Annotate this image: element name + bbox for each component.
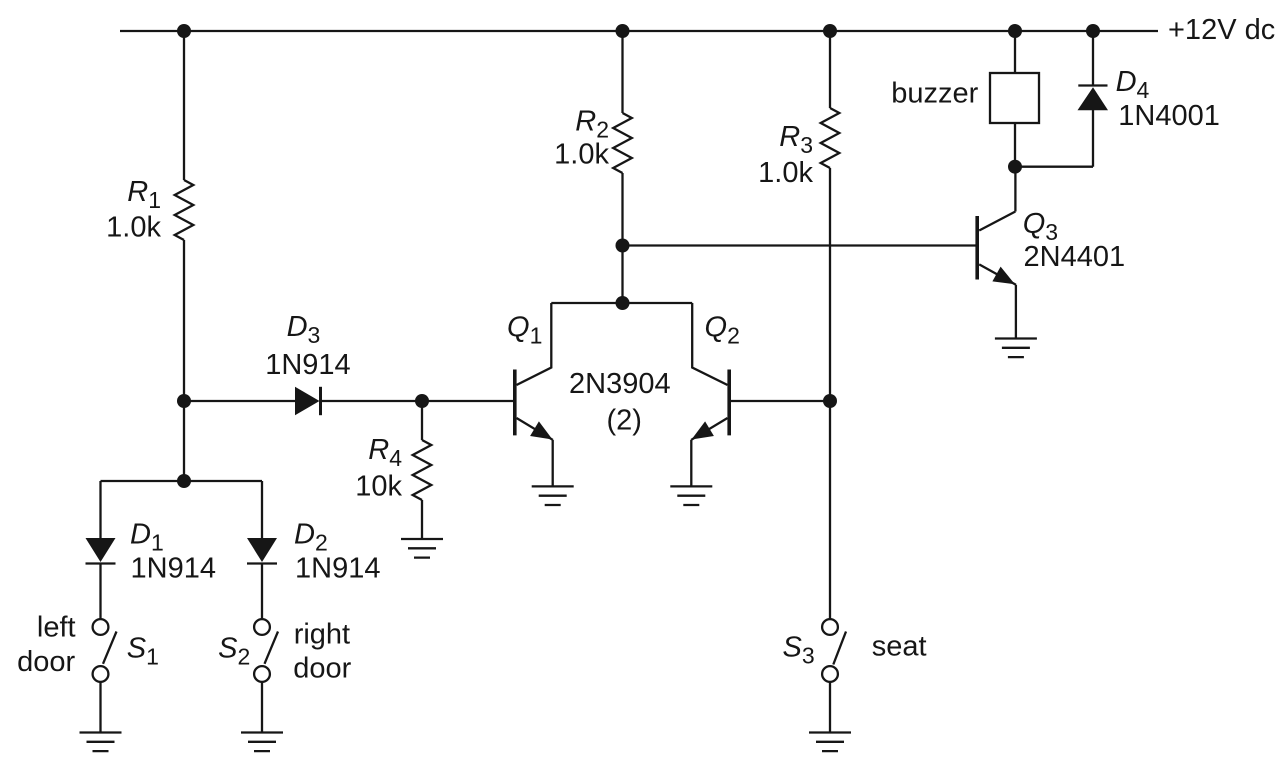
svg-text:door: door xyxy=(17,646,75,678)
svg-text:buzzer: buzzer xyxy=(891,78,978,110)
svg-text:S3: S3 xyxy=(783,632,815,669)
svg-text:right: right xyxy=(294,619,350,651)
svg-text:1.0k: 1.0k xyxy=(554,139,609,171)
svg-text:R2: R2 xyxy=(575,106,609,143)
svg-text:Q1: Q1 xyxy=(507,312,542,349)
svg-text:S1: S1 xyxy=(127,633,159,670)
svg-text:10k: 10k xyxy=(355,471,402,503)
svg-text:seat: seat xyxy=(872,631,927,663)
svg-text:1N914: 1N914 xyxy=(295,553,380,585)
svg-text:(2): (2) xyxy=(607,405,642,437)
svg-text:+12V dc: +12V dc xyxy=(1168,14,1275,46)
svg-text:2N4401: 2N4401 xyxy=(1024,241,1126,273)
svg-text:S2: S2 xyxy=(218,633,250,670)
svg-text:D1: D1 xyxy=(130,519,164,556)
svg-text:1N914: 1N914 xyxy=(131,553,216,585)
svg-text:left: left xyxy=(37,612,76,644)
svg-text:R3: R3 xyxy=(779,121,813,158)
svg-text:Q2: Q2 xyxy=(705,312,740,349)
svg-text:1N914: 1N914 xyxy=(265,349,350,381)
svg-text:2N3904: 2N3904 xyxy=(569,368,671,400)
svg-text:1N4001: 1N4001 xyxy=(1118,100,1220,132)
svg-text:D2: D2 xyxy=(294,519,328,556)
svg-text:Q3: Q3 xyxy=(1023,208,1058,245)
svg-text:D4: D4 xyxy=(1116,66,1150,103)
svg-text:1.0k: 1.0k xyxy=(758,157,813,189)
svg-text:R4: R4 xyxy=(368,434,402,471)
svg-text:D3: D3 xyxy=(287,311,321,348)
svg-text:1.0k: 1.0k xyxy=(106,212,161,244)
svg-text:R1: R1 xyxy=(127,176,161,213)
svg-text:door: door xyxy=(293,653,351,685)
